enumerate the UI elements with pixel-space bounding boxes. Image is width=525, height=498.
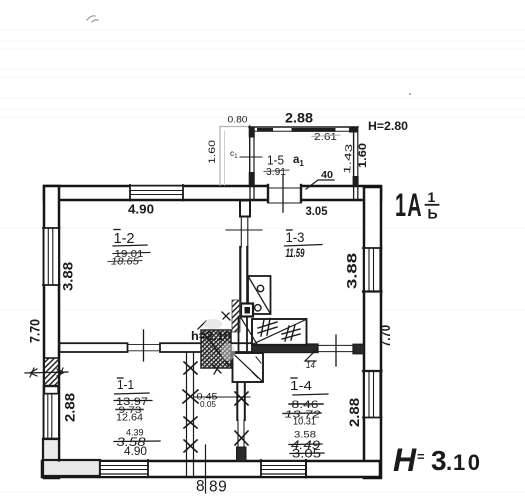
0.45 strike line to wall [194, 396, 250, 398]
bottom wall band [42, 461, 380, 477]
right wall band [364, 187, 381, 478]
veranda top wall [249, 127, 358, 133]
svg-text:1-5: 1-5 [267, 154, 284, 168]
8.89 dimension line [205, 445, 207, 493]
hash mark 2 [282, 325, 300, 341]
svg-text:4.90: 4.90 [128, 202, 154, 217]
door centerline room 1-1 [143, 330, 145, 361]
svg-text:1-3: 1-3 [286, 230, 305, 245]
svg-text:12.64: 12.64 [116, 413, 143, 424]
light partition in room 1-1 [187, 353, 194, 477]
crossed 3.91 [264, 167, 289, 178]
svg-text:h=2.10: h=2.10 [191, 329, 231, 343]
veranda right wall [353, 127, 359, 186]
speck [409, 93, 411, 95]
svg-text:3.88: 3.88 [61, 261, 76, 291]
svg-text:1-4: 1-4 [290, 378, 312, 393]
hatch strip left of wall [232, 300, 240, 332]
svg-text:=: = [417, 449, 425, 464]
window bottom wall W6 [100, 460, 148, 477]
svg-text:H: H [393, 442, 417, 478]
svg-text:40: 40 [321, 169, 333, 181]
door section thin (1-2/1-3 wall) [241, 217, 248, 248]
svg-text:3.05: 3.05 [292, 449, 321, 461]
veranda faint old outline [220, 127, 250, 186]
svg-text:1.60: 1.60 [207, 140, 218, 164]
svg-text:1-2: 1-2 [114, 230, 135, 247]
svg-text:1-1: 1-1 [117, 378, 134, 392]
pier boundary ticks [59, 186, 364, 461]
svg-text:1.60: 1.60 [357, 143, 369, 168]
window bottom wall W7 [261, 460, 306, 478]
svg-text:Ь: Ь [428, 206, 438, 222]
svg-text:7.70: 7.70 [28, 319, 43, 343]
room 1-3 label block [285, 230, 323, 260]
svg-text:3: 3 [431, 445, 447, 476]
X marks on partition [183, 362, 198, 452]
hatched square (stove base h=2.10) [201, 330, 231, 368]
interior horizontal wall middle segment [160, 343, 252, 352]
door centerline room 1-4 [335, 335, 337, 366]
svg-text:2.88: 2.88 [285, 111, 314, 126]
bottom-left corner pier shaded [43, 439, 59, 476]
wall between 1-1 and 1-4 [237, 353, 245, 420]
svg-text:3.88: 3.88 [345, 252, 360, 289]
lintel block under hatch [44, 386, 59, 394]
door opening threshold (room 1-4) [318, 345, 353, 351]
faint crossed 2.61 [312, 132, 340, 143]
wall stub at right wall [353, 344, 364, 354]
svg-text:4.90: 4.90 [124, 446, 147, 458]
svg-text:14: 14 [306, 360, 315, 371]
room 1-1 label block [114, 378, 160, 458]
door opening threshold (room 1-1) [128, 345, 161, 351]
lower dark section (1-2/1-3 wall) [240, 247, 247, 318]
window left wall W3 [43, 395, 60, 439]
svg-text:1А: 1А [395, 187, 423, 223]
dimension arrow through hatched opening [25, 368, 68, 377]
svg-text:0.80: 0.80 [228, 115, 248, 126]
svg-text:8: 8 [196, 478, 205, 495]
pencil smudges near stove [204, 319, 222, 329]
X marks on wall 1-1/1-4 [235, 392, 248, 445]
hatched wall opening left [44, 358, 59, 386]
shaft diagonal below flue [241, 318, 257, 344]
leader line for label 40 [306, 180, 334, 189]
svg-text:1.43: 1.43 [342, 144, 355, 175]
window left wall W2 [43, 228, 60, 285]
svg-text:2.88: 2.88 [347, 397, 362, 427]
interior horizontal wall right dark segment [252, 344, 318, 353]
hash mark 1 [258, 319, 277, 337]
svg-text:H=2.80: H=2.80 [368, 121, 408, 133]
svg-text:7.70: 7.70 [378, 325, 393, 347]
height H=3.10 [393, 442, 482, 478]
leader c1 to 1-5 [240, 156, 262, 158]
chimney rectangle with diagonal [248, 276, 271, 314]
stub to bottom wall [237, 447, 247, 461]
top wall band [44, 186, 381, 200]
leader line for label 14 [305, 349, 317, 361]
svg-text:18.65: 18.65 [111, 257, 139, 268]
veranda door opening in top wall [268, 184, 301, 203]
interior horizontal wall left segment [60, 343, 128, 352]
interior vertical wall stub below top wall (1-2/1-3) [240, 201, 250, 217]
svg-text:0.05: 0.05 [200, 400, 217, 409]
svg-text:3.58: 3.58 [294, 430, 316, 441]
flue small square [241, 304, 261, 317]
window right wall W4 [363, 248, 382, 292]
veranda left wall [249, 126, 255, 186]
rect below stove with diagonal [233, 353, 264, 382]
room 1-2 label block [108, 230, 150, 268]
svg-text:2.61: 2.61 [314, 132, 338, 143]
svg-text:3.05: 3.05 [306, 206, 329, 218]
left wall band [44, 186, 59, 478]
svg-text:89: 89 [209, 479, 227, 496]
veranda wall foot ticks on top wall [250, 186, 358, 200]
svg-text:11.59: 11.59 [286, 246, 305, 260]
svg-text:.: . [446, 450, 452, 475]
door centerline veranda [282, 175, 284, 212]
squiggle top-left [87, 16, 98, 22]
svg-text:2.88: 2.88 [63, 392, 78, 422]
window right wall W5 [363, 371, 382, 418]
hand marks near stove [198, 312, 230, 374]
room 1-4 label block [283, 378, 328, 461]
stove with hash marks [252, 319, 307, 345]
window top wall W1 [130, 185, 183, 201]
svg-text:10.31: 10.31 [293, 417, 316, 428]
tick line across 1-2/1-3 wall [226, 229, 262, 231]
svg-text:3.91: 3.91 [266, 167, 286, 178]
building litera 1A 1/b [395, 187, 439, 223]
svg-text:10: 10 [453, 450, 482, 475]
svg-text:1: 1 [428, 189, 436, 205]
wall strip below flue [239, 317, 248, 354]
